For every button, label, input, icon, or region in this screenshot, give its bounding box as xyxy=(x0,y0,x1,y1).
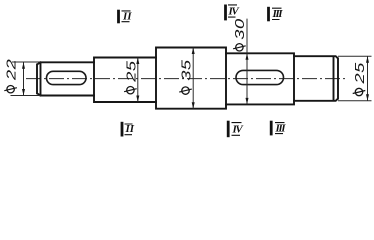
dimension phi35: value label xyxy=(179,59,194,94)
dimension phi35: dimension line xyxy=(192,48,194,109)
section mark II bottom: label with overline and underline xyxy=(125,123,135,135)
centerline (shaft axis, dash-dot) xyxy=(26,78,346,80)
svg-text:22: 22 xyxy=(5,59,19,81)
shaft section phi30 outline xyxy=(226,53,294,104)
dimension phi25 right: value label xyxy=(353,62,368,96)
dimension phi25 right: extension lines xyxy=(338,56,372,101)
svg-text:II: II xyxy=(122,11,132,23)
dimension phi30: arrows xyxy=(246,53,249,104)
keyway slot on phi22 section xyxy=(47,71,87,84)
dimension phi22: dimension line xyxy=(23,62,25,95)
svg-text:25: 25 xyxy=(353,62,367,84)
section mark IV bottom: label with overline and underline xyxy=(232,123,245,136)
svg-text:35: 35 xyxy=(180,59,194,80)
keyway slot on phi30 section xyxy=(236,70,284,84)
shaft section phi22 outline xyxy=(37,62,94,95)
section mark III bottom: thick bar xyxy=(270,121,273,136)
dimension phi22: arrows xyxy=(22,62,25,95)
dimension phi25 left: value label xyxy=(124,60,138,93)
section mark III top: label with overline and underline xyxy=(272,8,284,20)
section mark II top: thick bar xyxy=(117,10,120,24)
dimension phi25 left: arrows xyxy=(136,58,139,103)
section mark III bottom: label with overline and underline xyxy=(275,122,287,134)
section mark III top: thick bar xyxy=(267,7,270,21)
dimension phi22: extension lines xyxy=(11,62,41,96)
dimension phi22: value label xyxy=(4,59,18,93)
shaft section phi25 left outline xyxy=(94,58,156,103)
section mark II top: label with overline and underline xyxy=(122,11,133,23)
dimension phi35: arrows xyxy=(192,48,195,109)
section mark IV top: label with overline and underline xyxy=(228,5,241,18)
svg-text:25: 25 xyxy=(125,60,139,82)
shaft section phi25 right outline with end chamfer xyxy=(294,56,338,101)
dimension phi25 right: arrows xyxy=(366,56,369,101)
shaft section phi35 outline xyxy=(156,48,226,109)
dimension phi30: dimension line extending above shaft xyxy=(246,19,248,105)
svg-text:II: II xyxy=(125,123,135,135)
section mark II bottom: thick bar xyxy=(121,122,124,137)
section mark IV top: thick bar xyxy=(224,5,227,21)
dimension phi30: value label xyxy=(233,18,247,51)
dimension phi25 right: dimension line xyxy=(367,56,369,101)
section mark IV bottom: thick bar xyxy=(227,121,230,138)
svg-text:30: 30 xyxy=(233,18,247,39)
dimension phi25 left: dimension line xyxy=(137,58,139,103)
